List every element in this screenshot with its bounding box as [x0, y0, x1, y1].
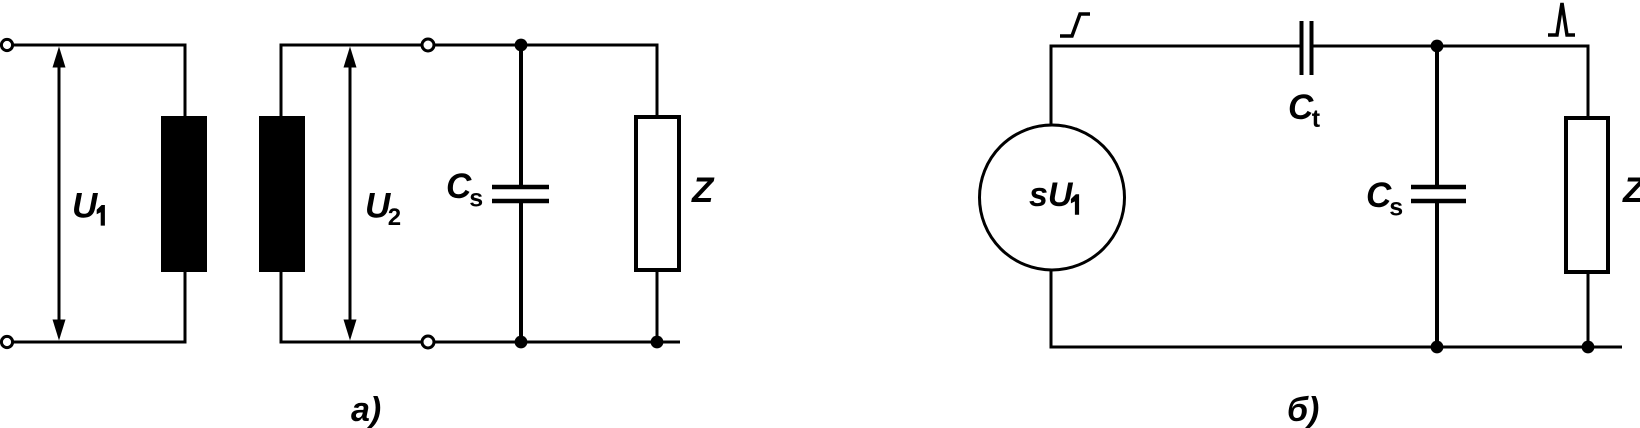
- capacitor Cs leads (circuit b): [1435, 46, 1439, 187]
- junction node Z bottom: [651, 336, 664, 349]
- svg-text:Z: Z: [691, 171, 715, 210]
- wire secondary top: [281, 45, 657, 117]
- voltage arrow U1: [53, 47, 66, 341]
- capacitor Cs plates: [492, 185, 549, 190]
- transformer primary winding: [161, 116, 207, 272]
- terminal secondary top: [422, 39, 434, 51]
- wire source top: [1051, 46, 1300, 124]
- junction node Z bottom (circuit b): [1582, 341, 1595, 354]
- junction node Cs bottom: [515, 336, 528, 349]
- svg-text:Cs: Cs: [446, 167, 483, 213]
- svg-text:U: U: [72, 187, 98, 226]
- svg-text:Ct: Ct: [1288, 88, 1321, 133]
- transformer secondary winding: [259, 116, 305, 272]
- pulse waveform symbol: [1548, 3, 1575, 35]
- load Z (circuit b): [1566, 118, 1608, 272]
- svg-text:Z: Z: [1622, 171, 1640, 210]
- wire primary top: [13, 45, 185, 117]
- load Z: [636, 117, 679, 270]
- junction node Cs top: [515, 39, 528, 52]
- junction node top: [1431, 40, 1444, 53]
- capacitor Cs plates (circuit b): [1411, 185, 1466, 190]
- svg-text:б): б): [1287, 391, 1319, 428]
- capacitor Ct plates: [1300, 21, 1304, 75]
- terminal bottom-left: [1, 336, 12, 347]
- source sU1: [980, 125, 1125, 270]
- junction node Cs bottom (circuit b): [1431, 341, 1444, 354]
- terminal top-left: [1, 39, 12, 50]
- svg-text:U2: U2: [365, 187, 401, 232]
- step waveform symbol: [1060, 14, 1090, 36]
- svg-text:Cs: Cs: [1366, 176, 1403, 222]
- capacitor Cs leads: [519, 45, 523, 187]
- terminal secondary bottom: [422, 336, 434, 348]
- voltage arrow U2: [344, 47, 357, 341]
- svg-text:а): а): [351, 391, 381, 428]
- wire Ct to Z corner: [1313, 46, 1588, 116]
- wire Z bottom (circuit b): [1587, 272, 1590, 347]
- wire source bottom: [1051, 270, 1622, 347]
- svg-text:sU: sU: [1029, 176, 1074, 214]
- wire primary bottom: [13, 271, 185, 342]
- wire Z bottom: [656, 270, 659, 342]
- wire secondary bottom: [281, 271, 680, 342]
